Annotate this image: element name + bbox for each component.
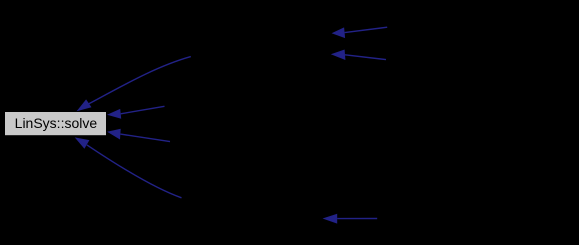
svg-text:LinSys::solve: LinSys::solve xyxy=(15,115,98,131)
